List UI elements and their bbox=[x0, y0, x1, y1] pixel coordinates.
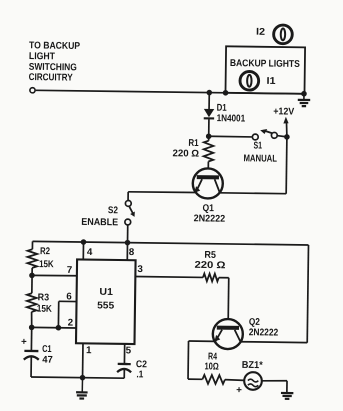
wire: riser from +12V node to Q1 collector wire bbox=[285, 137, 288, 194]
svg-text:4: 4 bbox=[87, 247, 93, 258]
svg-text:1N4001: 1N4001 bbox=[217, 113, 246, 124]
terminal: input from backup light switching circuitry bbox=[30, 88, 35, 93]
resistor R4 bbox=[202, 375, 225, 384]
node: junction main rail / D1 bbox=[206, 90, 212, 96]
wire: R3 bottom to node bbox=[30, 312, 33, 328]
svg-text:+: + bbox=[236, 385, 242, 396]
label: C2 .1 bbox=[136, 359, 148, 380]
label: D1 1N4001 bbox=[216, 103, 245, 125]
wire: Q1 emitter to S2 riser corner bbox=[128, 192, 195, 193]
diode D1 bbox=[204, 109, 215, 119]
svg-text:BZ1*: BZ1* bbox=[242, 360, 263, 371]
label: TO BACKUP LIGHT SWITCHING CIRCUITRY bbox=[29, 40, 81, 83]
label: R1 220 ohm bbox=[173, 138, 200, 160]
lamp I2 bbox=[274, 25, 293, 44]
wire: D1 anode lead bbox=[208, 93, 210, 109]
wire: Q2 emitter left and down to R4 bbox=[188, 341, 215, 379]
svg-text:ENABLE: ENABLE bbox=[81, 217, 118, 228]
switch S1 bbox=[252, 129, 277, 140]
wire: pin 7 lead bbox=[32, 274, 77, 277]
label: S1 MANUAL bbox=[243, 140, 277, 164]
svg-text:MANUAL: MANUAL bbox=[243, 153, 277, 164]
svg-text:2: 2 bbox=[68, 317, 74, 328]
wire: pin 5 stub down to C2 bbox=[123, 344, 125, 364]
svg-text:15K: 15K bbox=[37, 304, 52, 315]
wire: pin 8 stub bbox=[126, 243, 128, 260]
resistor R1 bbox=[203, 136, 213, 178]
ground (bottom right, buzzer return) bbox=[281, 392, 293, 394]
wire: S2 bottom contact down to Vcc rail bbox=[127, 225, 129, 242]
wire: R2 bottom to node bbox=[31, 268, 33, 275]
transistor Q2 bbox=[213, 319, 243, 349]
buzzer BZ1 bbox=[244, 372, 262, 390]
wire: R5 to Q2 base riser bbox=[218, 278, 229, 326]
wire: left rail corner down to R2 bbox=[31, 241, 33, 249]
wire: D1 cathode to node bbox=[208, 119, 210, 136]
svg-text:220 Ω: 220 Ω bbox=[194, 260, 225, 271]
wire: pin 3 lead to R5 bbox=[135, 276, 203, 279]
switch S2 bbox=[125, 200, 135, 225]
transistor Q1 bbox=[193, 168, 223, 198]
svg-text:7: 7 bbox=[67, 265, 73, 276]
svg-text:R3: R3 bbox=[38, 292, 50, 303]
resistor R3 bbox=[27, 293, 37, 312]
svg-text:BACKUP LIGHTS: BACKUP LIGHTS bbox=[230, 58, 301, 70]
ground (bottom left) bbox=[76, 378, 88, 399]
resistor R5 bbox=[203, 274, 219, 282]
wire: buzzer to ground bbox=[262, 380, 287, 392]
svg-text:D1: D1 bbox=[217, 103, 228, 114]
svg-text:15K: 15K bbox=[39, 259, 54, 270]
wire: pin 6 riser bbox=[57, 301, 59, 327]
svg-text:6: 6 bbox=[66, 291, 72, 302]
power: +12V supply arrow bbox=[283, 117, 288, 137]
svg-text:I2: I2 bbox=[256, 27, 266, 38]
node: junction ground rail / pin 1 / ground bbox=[80, 375, 86, 381]
node: junction pin 2 lead / pin 6 riser bbox=[56, 325, 62, 331]
svg-text:10Ω: 10Ω bbox=[204, 361, 219, 372]
resistor R2 bbox=[27, 249, 37, 268]
label: C1 47 bbox=[42, 344, 54, 366]
svg-text:8: 8 bbox=[129, 247, 135, 258]
svg-text:S1: S1 bbox=[254, 140, 263, 151]
wire: riser down to S2 top contact bbox=[127, 192, 129, 200]
svg-text:2N2222: 2N2222 bbox=[249, 327, 279, 338]
svg-text:1: 1 bbox=[86, 345, 92, 356]
svg-text:LIGHT: LIGHT bbox=[29, 51, 55, 62]
wire: node to S1 left contact bbox=[209, 135, 252, 138]
backup lights box bbox=[225, 46, 305, 94]
capacitor C2 bbox=[117, 364, 131, 378]
wire: Vcc rail (horizontal) bbox=[33, 241, 309, 245]
svg-text:47: 47 bbox=[42, 355, 53, 366]
wire: pin 1 stub down to ground rail bbox=[82, 343, 84, 377]
wire: pin 2 lead bbox=[32, 326, 76, 329]
label: Q2 2N2222 bbox=[249, 317, 279, 339]
label: S2 ENABLE bbox=[81, 205, 119, 228]
ground (top right, backup lights return) bbox=[298, 94, 311, 107]
label: U1 555 bbox=[97, 287, 115, 312]
node: junction Vcc rail / pin 4 stub bbox=[81, 239, 87, 245]
wire: node down to C1 bbox=[30, 327, 32, 351]
wire: R4 to buzzer bbox=[225, 379, 244, 382]
op-amp U1 555 timer box bbox=[76, 259, 136, 344]
svg-text:R2: R2 bbox=[40, 246, 51, 257]
wire: right riser from Vcc rail down to Q2 collector bbox=[307, 245, 308, 343]
lamp I1 bbox=[240, 71, 259, 90]
node: junction R3 / C1 / pin 2 wire bbox=[29, 325, 35, 331]
svg-text:+: + bbox=[21, 337, 27, 348]
label: R3 15K bbox=[37, 292, 52, 315]
capacitor C1 (electrolytic) bbox=[24, 351, 39, 377]
wire: node down to R3 bbox=[31, 275, 33, 293]
svg-text:5: 5 bbox=[126, 345, 132, 356]
node: junction main rail / box left corner bbox=[223, 90, 229, 96]
label: R5 220 ohm bbox=[194, 250, 225, 272]
wire: pin 4 stub bbox=[82, 242, 84, 259]
wire: main rail from input terminal to backup-lights box bbox=[36, 90, 304, 94]
wire: S1 right contact to +12V node bbox=[278, 136, 287, 137]
node: junction D1 / R1 / S1 wire bbox=[206, 133, 212, 139]
svg-text:R1: R1 bbox=[188, 138, 199, 149]
label: Q1 2N2222 bbox=[194, 203, 226, 225]
svg-text:3: 3 bbox=[137, 264, 143, 275]
node: junction R2 / R3 / pin 7 bbox=[29, 273, 35, 279]
svg-text:220 Ω: 220 Ω bbox=[173, 148, 200, 159]
wire: Q1 collector to +12V riser bbox=[220, 192, 287, 195]
svg-text:S2: S2 bbox=[108, 205, 119, 216]
svg-text:.1: .1 bbox=[136, 369, 144, 380]
label: R2 15K bbox=[39, 246, 54, 270]
node: junction main rail / ground at box right corner bbox=[301, 91, 307, 97]
svg-text:I1: I1 bbox=[266, 76, 276, 87]
svg-text:+12V: +12V bbox=[273, 106, 295, 117]
wire: Q2 collector to right riser bbox=[241, 341, 308, 344]
svg-text:U1: U1 bbox=[99, 287, 113, 298]
svg-text:CIRCUITRY: CIRCUITRY bbox=[29, 72, 74, 84]
node: junction Vcc rail / S2 / pin 8 stub bbox=[125, 240, 131, 246]
svg-text:555: 555 bbox=[97, 300, 115, 311]
svg-text:C1: C1 bbox=[42, 344, 52, 355]
svg-text:2N2222: 2N2222 bbox=[194, 213, 226, 224]
wire: bottom ground rail bbox=[31, 377, 124, 378]
label: R4 10 ohm bbox=[204, 351, 219, 372]
node: junction S1 / +12V / collector riser bbox=[284, 134, 290, 140]
wire: pin 6 lead bbox=[59, 300, 77, 302]
